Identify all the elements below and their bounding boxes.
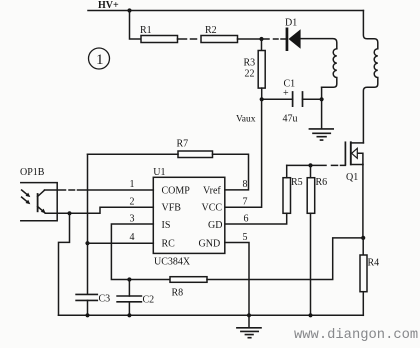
capacitor C1 xyxy=(283,79,303,125)
svg-text:5: 5 xyxy=(243,232,248,243)
ground main xyxy=(237,315,261,337)
wire Vaux node to C1 xyxy=(262,98,293,100)
wire HV+ to R1 xyxy=(130,11,142,40)
wire R6 top lead xyxy=(310,165,312,177)
svg-text:R5: R5 xyxy=(291,177,303,188)
wire R8 to sense corner xyxy=(207,238,363,280)
svg-text:R4: R4 xyxy=(368,258,380,269)
transformer T1 primary winding with leads xyxy=(363,11,377,143)
capacitor C3 xyxy=(76,294,110,305)
resistor R6 xyxy=(307,177,327,213)
junction gate line / R6 xyxy=(308,163,312,167)
wire aux winding to ground drop xyxy=(321,87,323,128)
svg-text:R1: R1 xyxy=(140,25,152,36)
wire pin 3 IS to sense line xyxy=(111,224,170,280)
wire R7 left to left rail xyxy=(88,153,179,155)
wire R6 bottom lead xyxy=(310,213,312,315)
diode D1 xyxy=(285,18,301,52)
wire Vaux to VCC pin 7 xyxy=(225,99,262,207)
pin numbers xyxy=(130,179,249,243)
wire C2 bottom lead xyxy=(128,302,130,316)
capacitor C2 xyxy=(117,295,154,306)
svg-text:D1: D1 xyxy=(285,18,297,29)
svg-text:HV+: HV+ xyxy=(98,0,119,11)
wire gate line xyxy=(287,164,346,166)
wire R3 to Vaux node xyxy=(261,88,263,99)
svg-text:RC: RC xyxy=(162,238,176,249)
ground aux xyxy=(309,129,333,140)
svg-text:3: 3 xyxy=(130,214,135,225)
resistor R2 xyxy=(201,25,238,43)
svg-text:Vaux: Vaux xyxy=(236,115,256,125)
svg-text:2: 2 xyxy=(130,197,135,208)
svg-text:GD: GD xyxy=(208,220,222,231)
node Vaux junction xyxy=(260,97,264,101)
wire D1 to aux winding xyxy=(301,39,337,49)
wire bottom rail xyxy=(59,314,364,316)
svg-text:VFB: VFB xyxy=(162,203,182,214)
svg-text:+: + xyxy=(283,88,289,99)
svg-text:6: 6 xyxy=(244,214,249,225)
junction emitter node xyxy=(67,211,71,215)
wire sense node to R4 xyxy=(362,238,364,255)
optocoupler OP1B xyxy=(20,167,57,221)
resistor R1 xyxy=(140,25,178,43)
svg-text:C2: C2 xyxy=(143,295,155,306)
junction Q1 source / R4 / sense xyxy=(361,236,365,240)
junction bottom rail / R6 xyxy=(308,313,312,317)
svg-text:8: 8 xyxy=(243,179,248,190)
wire R1 to R2 xyxy=(178,38,197,40)
wire node A to D1 xyxy=(263,38,286,40)
svg-text:IS: IS xyxy=(162,220,171,231)
junction top rail / R1 xyxy=(127,8,131,12)
svg-text:Vref: Vref xyxy=(203,185,221,196)
wire Q1 source to sense node xyxy=(362,165,364,238)
wire C2 top lead xyxy=(128,280,130,297)
wire left rail xyxy=(87,154,89,294)
junction sense line / C2 xyxy=(127,277,131,281)
wire R5 top lead xyxy=(286,165,288,177)
resistor R3 xyxy=(244,51,266,89)
wire emitter node down to bottom rail xyxy=(59,213,70,315)
svg-text:GND: GND xyxy=(199,238,221,249)
svg-text:VCC: VCC xyxy=(202,203,223,214)
svg-text:7: 7 xyxy=(243,197,248,208)
svg-text:4: 4 xyxy=(130,232,135,243)
wire HV+ rail xyxy=(88,10,363,12)
wire pin 4 RC xyxy=(88,242,154,244)
svg-text:1: 1 xyxy=(130,179,135,190)
watermark www.diangon.com xyxy=(294,327,418,343)
wire R4 bottom lead xyxy=(362,292,364,316)
transformer T1 aux winding xyxy=(322,49,337,88)
mosfet Q1 xyxy=(345,142,363,183)
svg-text:R2: R2 xyxy=(205,25,217,36)
svg-text:Q1: Q1 xyxy=(346,172,358,183)
resistor R4 xyxy=(360,255,379,292)
wire GD pin 6 to R5 xyxy=(225,213,287,224)
wire R2 to node A xyxy=(238,38,262,40)
resistor R5 xyxy=(283,177,303,213)
circled figure number 1 xyxy=(89,48,110,69)
junction left rail / pin 4 xyxy=(85,241,89,245)
wire pin 5 GND to ground xyxy=(225,243,249,316)
wire pin 1 to opto collector xyxy=(45,189,154,191)
svg-text:COMP: COMP xyxy=(162,185,191,196)
junction bottom rail / C2 xyxy=(127,313,131,317)
svg-text:R8: R8 xyxy=(172,288,184,299)
resistor R8 xyxy=(170,277,207,299)
svg-text:R7: R7 xyxy=(177,139,189,150)
node HV+ xyxy=(98,0,119,11)
junction bottom rail / C3 xyxy=(85,313,89,317)
junction aux ground node xyxy=(320,97,324,101)
wire R7 right to pin 8 xyxy=(213,154,249,190)
IC U1 box xyxy=(153,167,225,268)
svg-text:47u: 47u xyxy=(283,114,298,125)
svg-text:OP1B: OP1B xyxy=(20,167,45,178)
resistor R7 xyxy=(177,139,213,158)
svg-text:U1: U1 xyxy=(153,167,165,178)
svg-text:R3: R3 xyxy=(244,58,256,69)
svg-text:R6: R6 xyxy=(316,177,328,188)
wire node A to R3 xyxy=(261,39,263,51)
svg-text:22: 22 xyxy=(245,69,255,80)
svg-text:C3: C3 xyxy=(99,294,111,305)
node A junction xyxy=(259,37,263,41)
wire pin 2 to opto emitter xyxy=(45,207,153,213)
svg-text:1: 1 xyxy=(96,52,104,68)
wire C3 bottom lead xyxy=(87,300,89,315)
wire C1 to ground node xyxy=(303,98,322,100)
junction bottom rail / ground xyxy=(247,313,251,317)
svg-text:www.diangon.com: www.diangon.com xyxy=(294,327,418,343)
node Vaux label xyxy=(236,115,256,125)
svg-text:UC384X: UC384X xyxy=(154,257,191,268)
